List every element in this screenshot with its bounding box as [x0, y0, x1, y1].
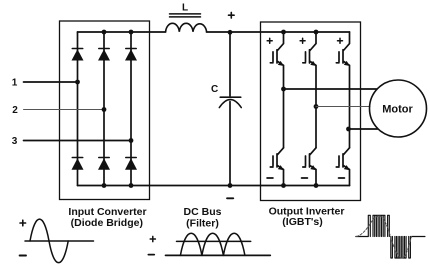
- inductor L coil: [166, 23, 207, 31]
- dc bus wave baseline: [166, 254, 271, 256]
- dc bus dc-level line: [177, 240, 251, 242]
- svg-text:C: C: [211, 84, 218, 95]
- wire: capacitor top lead: [229, 32, 231, 96]
- svg-text:L: L: [182, 3, 188, 14]
- svg-text:(Filter): (Filter): [186, 218, 219, 230]
- label - (dc bus wave): [148, 254, 154, 256]
- wire: phase input 3: [24, 140, 132, 142]
- diode D3 (top, column 3): [125, 49, 137, 61]
- input sine axis: [25, 240, 94, 242]
- output inverter box: [261, 22, 361, 201]
- svg-text:Motor: Motor: [382, 104, 413, 116]
- diode D6 (bottom, column 3): [125, 158, 137, 170]
- diode D5 (bottom, column 2): [98, 158, 110, 170]
- node: column 2 bottom: [102, 183, 107, 188]
- pwm negative pulses: [391, 237, 411, 259]
- node: column 3 bottom: [129, 183, 134, 188]
- IGBT Q3 (top, leg3): [336, 32, 350, 148]
- svg-text:1: 1: [12, 78, 18, 89]
- IGBT Q5 (bottom, leg2): [303, 148, 317, 186]
- node: leg3 midpoint: [346, 127, 351, 132]
- label - (input sine): [20, 255, 26, 257]
- label + (leg3): [338, 38, 343, 43]
- capacitor C curved plate: [219, 100, 241, 108]
- svg-text:3: 3: [12, 136, 18, 147]
- label - (leg2 bottom): [302, 177, 308, 179]
- IGBT Q1 (top, leg1): [270, 32, 284, 148]
- label - (leg1 bottom): [267, 177, 273, 179]
- pwm centerline right: [412, 236, 425, 238]
- diode D4 (bottom, column 1): [72, 158, 84, 170]
- wire: bridge phase column 3: [130, 32, 132, 186]
- node: leg1 bottom junction: [281, 183, 286, 188]
- input sine waveform: [30, 219, 68, 263]
- node: inverter leg2 top: [314, 30, 319, 35]
- wire: capacitor bottom lead: [229, 102, 231, 186]
- wire: phase input 2: [24, 109, 105, 111]
- IGBT Q6 (bottom, leg3): [336, 148, 350, 186]
- pwm positive pulses: [368, 215, 389, 236]
- node: column 2 top: [102, 30, 107, 35]
- node: column 3 top: [129, 30, 134, 35]
- capacitor C top plate: [220, 96, 240, 98]
- label + (input sine): [20, 220, 26, 226]
- diode D2 (top, column 2): [98, 49, 110, 61]
- IGBT Q2 (top, leg2): [303, 32, 317, 148]
- svg-text:(IGBT's): (IGBT's): [282, 216, 322, 228]
- wire: motor phase W: [350, 128, 378, 130]
- svg-text:2: 2: [12, 105, 18, 116]
- motor M: [370, 80, 427, 137]
- wire: DC+ rail (bridge top bus to coil, coil to inverter leg3): [78, 31, 350, 33]
- label + (dc bus wave): [150, 236, 155, 241]
- dc bus rectified humps: [180, 233, 245, 255]
- wire: motor phase V: [316, 106, 370, 108]
- node: leg1 midpoint: [281, 87, 286, 92]
- node: inverter leg1 top: [281, 30, 286, 35]
- label - (leg3 bottom): [339, 177, 345, 179]
- wire: bridge phase column 1: [77, 32, 79, 186]
- wire: DC- rail (bridge bottom bus to inverter leg3): [78, 185, 350, 187]
- wire: phase input 1: [24, 81, 78, 83]
- wire: bridge phase column 2: [103, 32, 105, 186]
- inductor core bars: [170, 14, 201, 17]
- node: input 2 junction: [102, 107, 107, 112]
- label + (leg1): [267, 38, 272, 43]
- label - (DC bus bottom): [227, 197, 233, 199]
- input converter box: [60, 21, 150, 200]
- label + (DC bus top): [229, 12, 235, 18]
- diode D1 (top, column 1): [72, 49, 84, 61]
- label + (leg2): [300, 38, 305, 43]
- node: input 3 junction: [129, 138, 134, 143]
- svg-text:DC Bus: DC Bus: [184, 206, 222, 218]
- node: input 1 junction: [75, 80, 80, 85]
- svg-text:(Diode Bridge): (Diode Bridge): [71, 217, 143, 229]
- IGBT Q4 (bottom, leg1): [270, 148, 284, 186]
- node: capacitor top junction: [228, 30, 233, 35]
- node: capacitor bottom junction: [228, 183, 233, 188]
- node: leg2 bottom junction: [314, 183, 319, 188]
- wire: motor phase U: [284, 88, 377, 90]
- pwm centerline left: [356, 236, 368, 238]
- pwm sine overlay: [357, 216, 412, 258]
- node: leg2 midpoint: [314, 104, 319, 109]
